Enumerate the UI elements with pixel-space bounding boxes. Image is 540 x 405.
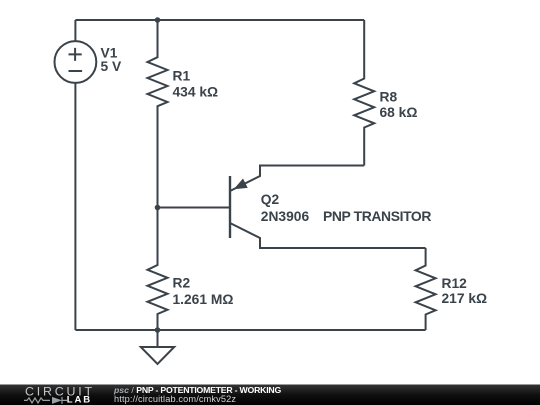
svg-text:PNP TRANSITOR: PNP TRANSITOR [323,208,431,224]
wire collector of Q2 to R12 [230,223,426,248]
svg-text:Q2: Q2 [261,192,280,207]
resistor R2 [148,208,168,331]
wire emitter of Q2 to R8 [230,166,364,192]
wire left vertical V1 top lead [74,20,76,41]
wire bottom rail [75,329,425,331]
ground [141,347,174,364]
resistor R1 [148,20,168,208]
svg-text:1.261 MΩ: 1.261 MΩ [173,292,234,307]
resistor R8 [354,20,374,166]
svg-text:R1: R1 [173,69,191,84]
svg-text:LAB: LAB [67,395,92,405]
voltage source V1 [55,41,97,83]
svg-text:R8: R8 [380,90,398,105]
transistor Q2 body bar [229,176,231,238]
svg-text:R2: R2 [173,276,191,291]
wire top rail from V1 to R8 [75,19,364,21]
emitter arrow (PNP) [234,179,248,190]
svg-text:434 kΩ: 434 kΩ [173,85,219,100]
wire base from node to Q2 [158,207,231,209]
svg-text:5 V: 5 V [101,59,123,74]
node dot bottom rail [155,327,161,333]
svg-text:http://circuitlab.com/cmkv52z: http://circuitlab.com/cmkv52z [114,394,236,404]
node dot top rail [155,17,161,23]
node dot base [155,205,161,211]
svg-text:2N3906: 2N3906 [261,209,310,224]
wire ground stub [157,330,159,347]
resistor R12 [416,248,436,330]
svg-text:68 kΩ: 68 kΩ [380,105,418,120]
wire left vertical V1 bottom lead [74,83,76,330]
svg-text:R12: R12 [442,276,468,291]
svg-text:217 kΩ: 217 kΩ [442,291,488,306]
logo resistor-diode squiggle [24,397,67,404]
